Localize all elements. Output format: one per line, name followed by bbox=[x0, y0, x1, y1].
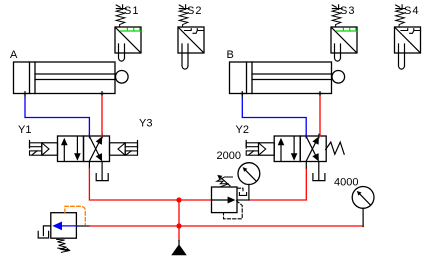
valve V1 right solenoid diagonal bbox=[126, 151, 131, 155]
limit switch S2 bbox=[178, 5, 204, 69]
relief valve spring bbox=[57, 239, 68, 252]
valve V1 right solenoid terminal pin bbox=[137, 146, 139, 155]
regulator pilot vent (dashed) bbox=[238, 188, 244, 192]
pressure source bbox=[178, 241, 180, 246]
svg-text:Y2: Y2 bbox=[236, 124, 249, 136]
wire: cyl A right port to V1 (red) bbox=[101, 94, 103, 96]
cylinder A port ticks bbox=[23, 92, 104, 96]
relief valve flow arrow (blue) bbox=[56, 225, 76, 227]
svg-text:Y3: Y3 bbox=[139, 118, 152, 130]
regulator outlet stub bbox=[237, 199, 249, 201]
svg-text:S1: S1 bbox=[124, 5, 139, 17]
pressure relief valve bbox=[51, 213, 77, 239]
cylinder B bbox=[230, 62, 332, 94]
valve V2 left solenoid diagonal bbox=[249, 151, 254, 155]
wire: regulator out to V2 bottom port (red) bbox=[249, 168, 306, 200]
svg-text:2000: 2000 bbox=[217, 150, 241, 162]
valve V1 left solenoid diagonal bbox=[32, 151, 37, 155]
relief valve pilot line (orange dashed) bbox=[65, 206, 85, 225]
svg-text:S4: S4 bbox=[404, 5, 419, 17]
cylinder A rod-end cam bbox=[116, 71, 129, 84]
svg-text:Y1: Y1 bbox=[18, 124, 31, 136]
junction dot lower bbox=[176, 223, 181, 228]
valve V2 right return spring bbox=[326, 142, 345, 154]
cylinder B port ticks bbox=[241, 92, 322, 96]
cylinder A bbox=[14, 62, 116, 94]
svg-text:B: B bbox=[227, 49, 234, 61]
cylinder B rod-end cam bbox=[332, 71, 345, 84]
regulator adjustment spring bbox=[217, 177, 233, 187]
wire: lower rail relief to gauge (red) bbox=[76, 225, 89, 227]
gauge 4000 bbox=[352, 187, 374, 209]
valve V1 right solenoid Y3 bbox=[110, 141, 138, 156]
wire: cyl B left port to V2 (blue) bbox=[241, 94, 243, 98]
junction dot upper bbox=[176, 197, 181, 202]
pressure regulator bbox=[212, 187, 238, 213]
gauge 2000 bbox=[238, 163, 260, 185]
wire: supply riser (red) bbox=[178, 200, 180, 241]
wire: V1 bottom port down to supply rail (red) bbox=[88, 162, 90, 169]
svg-text:4000: 4000 bbox=[334, 176, 358, 188]
svg-text:S2: S2 bbox=[187, 5, 202, 17]
svg-text:A: A bbox=[10, 49, 18, 61]
relief valve tank line bbox=[38, 226, 51, 238]
valve V2 left solenoid Y2 bbox=[246, 141, 274, 156]
valve V2 body (4/2) bbox=[274, 134, 326, 180]
svg-text:S3: S3 bbox=[340, 5, 355, 17]
wire: cyl A left port to V1 (blue) bbox=[24, 94, 26, 98]
limit switch S4 bbox=[395, 5, 421, 69]
wire: cyl B right port to V2 (red) bbox=[319, 94, 321, 96]
limit switch S1 bbox=[115, 5, 141, 61]
gauge 2000 stem bbox=[248, 185, 250, 200]
regulator sensing pilot (dashed) bbox=[224, 201, 243, 219]
valve V1 left solenoid Y1 bbox=[30, 141, 58, 156]
gauge 4000 stem bbox=[362, 208, 364, 226]
valve V1 body (4/2) bbox=[58, 134, 110, 180]
limit switch S3 bbox=[331, 5, 357, 61]
